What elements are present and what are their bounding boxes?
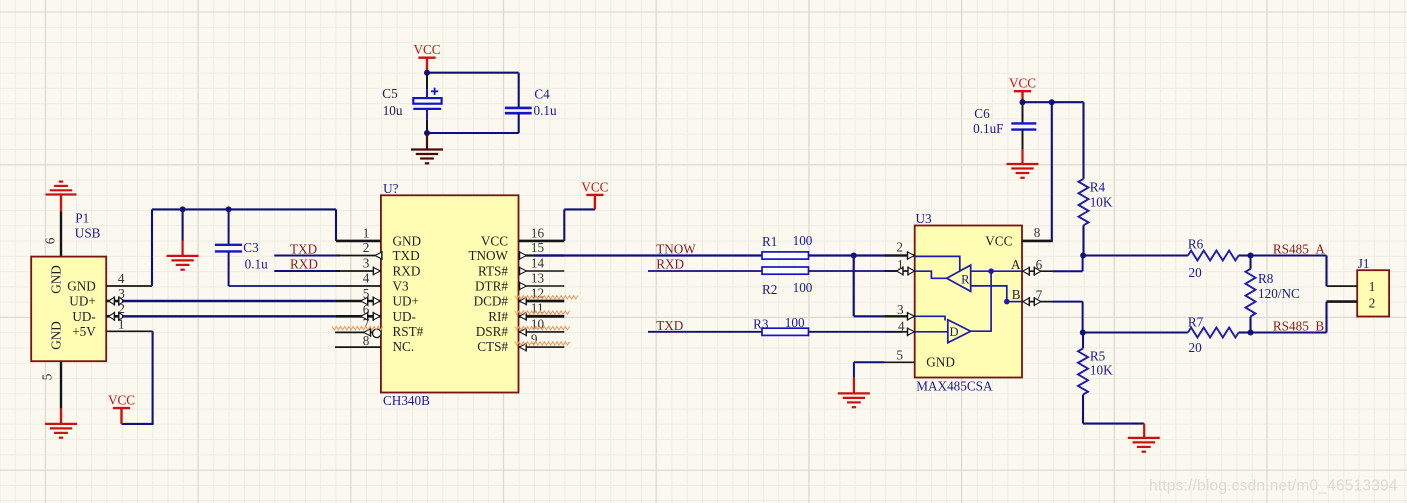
wire VCC down to U3 pin8 (1051, 102, 1053, 241)
svg-text:5: 5 (40, 373, 55, 380)
svg-text:5: 5 (363, 286, 370, 301)
U? pin name GND (393, 234, 422, 249)
ground below P1 (45, 424, 77, 438)
label P1 value USB (75, 226, 101, 241)
svg-text:R2: R2 (762, 282, 777, 297)
label CH340B (383, 393, 430, 408)
svg-text:UD-: UD- (72, 309, 95, 324)
svg-text:R4: R4 (1090, 180, 1106, 195)
U? pin 15 stub (519, 251, 565, 260)
svg-text:VCC: VCC (108, 393, 135, 408)
U3 pin 7 stub (1022, 297, 1053, 306)
U3 pin number 7 (1036, 287, 1043, 302)
svg-text:https://blog.csdn.net/m0_46513: https://blog.csdn.net/m0_46513394 (1149, 478, 1398, 495)
label R3 value 100 (785, 315, 805, 330)
P1 pin number 2 (118, 301, 125, 316)
U3 internal wire pin2 to R enable (915, 256, 960, 270)
U? pin 16 stub (519, 240, 565, 243)
U? pin 7 stub (335, 328, 381, 338)
wire R6 to junction (1239, 254, 1251, 256)
svg-text:7: 7 (1036, 287, 1043, 302)
junction dot RS485_A/R8 (1248, 253, 1254, 259)
wire GND net horizontal (152, 208, 336, 210)
svg-text:R6: R6 (1188, 237, 1204, 252)
junction dot R5/B (1080, 330, 1086, 336)
junction dot VCC/pin8 riser (1049, 99, 1055, 105)
svg-text:R: R (961, 272, 970, 286)
wire A row from U3 pin6 (1053, 256, 1083, 272)
svg-text:GND: GND (67, 279, 96, 294)
capacitor C3 (215, 209, 242, 286)
U? pin number 12 (531, 285, 544, 300)
svg-text:C3: C3 (243, 240, 259, 255)
J1 pin label 2 (1369, 296, 1376, 311)
P1 pin number 3 (118, 286, 125, 301)
label C5 value (383, 103, 403, 118)
U? pin name DSR# (476, 324, 509, 339)
U? pin number 10 (531, 316, 545, 331)
connector P1 body (31, 257, 106, 362)
U3 pin number 8 (1034, 225, 1041, 240)
ground (dark) below C5 (411, 150, 443, 164)
P1 pin name UD+ (69, 294, 96, 309)
U3 internal wire pin4 to D input (915, 331, 948, 333)
wire C4 bottom to C5 bottom (427, 132, 519, 134)
U? pin number 5 (363, 286, 370, 301)
wire R3 to U3 pin4 (809, 331, 904, 333)
svg-text:TXD: TXD (393, 248, 420, 263)
svg-text:4: 4 (118, 271, 125, 286)
svg-text:UD+: UD+ (393, 294, 420, 309)
svg-text:TXD: TXD (290, 241, 317, 256)
svg-text:0.1uF: 0.1uF (973, 121, 1003, 136)
wire R8 bottom stem (1249, 317, 1251, 333)
capacitor C5 (polarized) (413, 74, 441, 132)
resistor R6 (1188, 251, 1239, 261)
resistor R5 (1078, 348, 1088, 394)
P1 pin name +5V (72, 324, 96, 339)
svg-text:20: 20 (1189, 340, 1203, 355)
U? pin 1 stub (336, 240, 381, 243)
svg-text:GND: GND (393, 234, 422, 249)
svg-text:10K: 10K (1090, 363, 1113, 378)
svg-text:15: 15 (531, 240, 545, 255)
U3 pin number 1 (897, 257, 904, 272)
power VCC (C5 rail) (413, 42, 440, 71)
U? pin name UD- (393, 309, 416, 324)
wire VCC to pin16 (564, 209, 595, 241)
svg-text:5: 5 (896, 347, 903, 362)
svg-text:R1: R1 (762, 234, 777, 249)
svg-text:100: 100 (793, 280, 813, 295)
junction dot GND net / C3 ground (180, 206, 186, 212)
wavy no-ERC marker pin 7 (332, 327, 382, 330)
wire R2 to U3 pin1 (809, 270, 899, 272)
op-amp U3 MAX485CSA body (915, 226, 1022, 378)
svg-text:J1: J1 (1358, 256, 1370, 271)
U3 pin 2 stub (885, 251, 915, 260)
ground bottom right (1128, 438, 1160, 452)
svg-text:UD-: UD- (393, 309, 416, 324)
svg-text:1: 1 (1369, 279, 1376, 294)
svg-text:16: 16 (531, 225, 545, 240)
U? pin number 13 (531, 270, 545, 285)
wire RXD net (left) (274, 270, 340, 272)
op-amp U? CH340B body (381, 195, 519, 392)
U? pin name DTR# (475, 279, 508, 294)
U? pin number 2 (363, 240, 370, 255)
wire VCC rail right (1023, 101, 1084, 103)
svg-text:RTS#: RTS# (478, 264, 508, 279)
U3 pin number 3 (897, 302, 904, 317)
svg-text:1: 1 (118, 317, 125, 332)
wire C3 bottom to V3 (229, 285, 336, 287)
svg-text:GND: GND (926, 355, 955, 370)
P1 pin 4 stub (106, 285, 152, 287)
U? pin name RTS# (478, 264, 508, 279)
power VCC (P1) (108, 393, 135, 424)
svg-text:GND: GND (49, 321, 64, 350)
wire VCC down to R4 (1082, 102, 1084, 179)
ground below C6 (1007, 164, 1039, 178)
U? pin number 1 (363, 226, 370, 241)
U3 internal wire B line (1007, 301, 1022, 303)
pin number 5 (rotated) (40, 373, 55, 380)
svg-text:RXD: RXD (393, 264, 421, 279)
wire P1 pin1 to VCC (122, 331, 154, 424)
svg-text:2: 2 (1369, 296, 1376, 311)
wavy no-ERC marker pin 10 (515, 327, 570, 330)
svg-text:TNOW: TNOW (656, 241, 696, 256)
U3 pin 3 stub (885, 312, 915, 321)
wire A row to R6 (1083, 254, 1188, 256)
junction dot C5 bottom (424, 130, 430, 136)
svg-text:3: 3 (363, 256, 370, 271)
wire TNOW net (534, 254, 762, 256)
U3 pin number 4 (898, 319, 905, 334)
U3 pin number 5 (896, 347, 903, 362)
junction dot R4/A (1080, 253, 1086, 259)
svg-text:C5: C5 (382, 86, 398, 101)
ground near C3 (167, 256, 199, 270)
label R8 designator (1258, 271, 1274, 286)
wire UD+ net (122, 300, 336, 302)
label C3 value (245, 256, 268, 271)
resistor R8 (1246, 269, 1256, 317)
U? pin number 6 (363, 302, 370, 317)
U? pin 5 stub (336, 296, 381, 305)
U? pin 14 stub (519, 267, 565, 276)
connector J1 body (1357, 270, 1389, 316)
wire TXD net (right, to R3) (648, 331, 762, 333)
U3 pin number 6 (1036, 257, 1043, 272)
svg-text:6: 6 (1036, 257, 1043, 272)
power VCC (U? pin16) (581, 179, 608, 209)
wire B row to R7 (1083, 331, 1188, 333)
resistor R7 (1188, 328, 1239, 338)
capacitor C4 (505, 108, 532, 133)
svg-text:100: 100 (785, 315, 805, 330)
junction dot TNOW (851, 253, 857, 259)
U3 internal wire R input to B (971, 286, 1007, 302)
junction dot C3 top (226, 206, 232, 212)
svg-text:VCC: VCC (985, 234, 1012, 249)
svg-text:RS485_A: RS485_A (1273, 242, 1326, 257)
U? pin name NC. (393, 339, 415, 354)
wire P1 pin6 stub (60, 212, 62, 257)
label R7 value 20 (1189, 340, 1203, 355)
svg-text:100: 100 (793, 233, 813, 248)
wire to ground near C3 (182, 209, 184, 256)
U? pin name V3 (393, 279, 410, 294)
label R8 value 120/NC (1258, 286, 1300, 301)
svg-text:3: 3 (118, 286, 125, 301)
U? pin 13 stub (519, 282, 565, 291)
svg-text:DTR#: DTR# (475, 279, 508, 294)
P1 pin 2 bidirectional arrows (109, 312, 125, 321)
svg-text:UD+: UD+ (69, 294, 96, 309)
U? pin number 11 (531, 301, 544, 316)
U3 pin 1 stub (885, 266, 915, 275)
resistor R4 (1079, 179, 1089, 226)
wire P1 pin5 ground stem (60, 408, 62, 424)
wire R4 to A row (1082, 225, 1084, 255)
J1 pin 2 stub (1327, 300, 1358, 303)
wire TXD net (left) (274, 255, 340, 257)
U? pin number 9 (531, 332, 538, 347)
U? pin 12 stub (519, 297, 565, 306)
U? pin number 7 (363, 316, 370, 331)
svg-text:R8: R8 (1258, 271, 1274, 286)
U? pin name RI# (488, 309, 508, 324)
P1 pin number 4 (118, 271, 125, 286)
svg-text:RXD: RXD (290, 256, 318, 271)
U? pin 6 stub (336, 312, 381, 321)
U3 internal wire D output to A (971, 271, 991, 331)
label R4 designator (1090, 180, 1106, 195)
U3 pin name VCC (985, 234, 1012, 249)
label J1 designator (1358, 256, 1370, 271)
wire R7 to junction (1239, 331, 1251, 333)
U3 internal junction dot A (988, 268, 994, 274)
svg-text:10K: 10K (1090, 194, 1113, 209)
svg-text:6: 6 (43, 237, 58, 244)
wire R5 top (1082, 333, 1084, 349)
U? pin 11 stub (519, 312, 565, 321)
net label TNOW (656, 241, 696, 256)
wire R8 top stem (1249, 256, 1251, 269)
ground below U3 (838, 393, 870, 407)
wire UD- net (122, 315, 336, 317)
label R6 value 20 (1189, 265, 1203, 280)
svg-text:R7: R7 (1188, 314, 1204, 329)
wire GND net down to CH340 pin1 (335, 209, 337, 241)
label C6 designator (974, 106, 990, 121)
label R6 designator (1188, 237, 1204, 252)
svg-text:VCC: VCC (581, 179, 608, 194)
svg-text:0.1u: 0.1u (245, 256, 268, 271)
svg-text:1: 1 (363, 226, 370, 241)
pin number 6 (rotated) (43, 237, 58, 244)
U? pin 8 stub (335, 346, 381, 348)
label C4 designator (534, 86, 550, 101)
P1 rotated GND text (lower) (49, 321, 64, 350)
svg-text:TXD: TXD (656, 318, 683, 333)
P1 pin 5 stub (60, 361, 62, 408)
label U? designator (383, 181, 399, 196)
U3 pin number 2 (896, 240, 903, 255)
U? pin number 15 (531, 240, 545, 255)
resistor R3 (762, 328, 809, 335)
wavy no-ERC marker pin 11 (515, 311, 570, 314)
capacitor C6 (1011, 103, 1036, 164)
resistor R1 (762, 252, 809, 259)
P1 pin 3 stub (106, 300, 122, 303)
svg-text:C6: C6 (974, 106, 990, 121)
svg-text:2: 2 (896, 240, 903, 255)
label R1 value 100 (793, 233, 813, 248)
P1 pin 1 stub (106, 330, 152, 332)
wire RS485_A to J1 (1251, 256, 1327, 287)
label R5 value 10K (1090, 363, 1113, 378)
wire VCC rail to C4 top (427, 72, 519, 74)
U? pin name TNOW (468, 248, 508, 263)
watermark (1149, 478, 1398, 495)
svg-text:V3: V3 (393, 279, 410, 294)
svg-text:120/NC: 120/NC (1258, 286, 1300, 301)
svg-text:GND: GND (49, 265, 64, 294)
J1 pin 1 stub (1327, 285, 1358, 287)
U3 internal wire A line (971, 270, 1022, 272)
svg-text:10u: 10u (383, 103, 403, 118)
wire B row from U3 pin7 (1053, 302, 1083, 333)
net label RXD (left) (290, 256, 318, 271)
U3 pin 8 stub (1022, 240, 1053, 243)
U? pin name CTS# (477, 339, 508, 354)
U? pin number 8 (363, 333, 370, 348)
svg-text:2: 2 (363, 240, 370, 255)
P1 pin 3 bidirectional arrows (109, 296, 125, 305)
svg-text:B: B (1012, 287, 1021, 302)
junction dot C6 top (1020, 99, 1026, 105)
svg-text:1: 1 (897, 257, 904, 272)
svg-text:CH340B: CH340B (383, 393, 430, 408)
svg-text:8: 8 (363, 333, 370, 348)
label R2 value 100 (793, 280, 813, 295)
P1 pin name UD- (72, 309, 95, 324)
svg-text:RXD: RXD (656, 256, 684, 271)
wire U3 pin5 to ground (854, 362, 885, 393)
svg-text:VCC: VCC (481, 234, 508, 249)
svg-text:R3: R3 (753, 316, 769, 331)
svg-text:A: A (1011, 257, 1021, 272)
U3 internal wire pin3 to D enable (915, 316, 945, 320)
svg-text:RI#: RI# (488, 309, 508, 324)
resistor R2 (762, 267, 809, 274)
svg-text:+5V: +5V (72, 324, 96, 339)
svg-text:DSR#: DSR# (476, 324, 509, 339)
svg-text:0.1u: 0.1u (534, 103, 557, 118)
svg-text:6: 6 (363, 302, 370, 317)
U? pin number 3 (363, 256, 370, 271)
svg-text:14: 14 (531, 255, 545, 270)
label C3 designator (243, 240, 259, 255)
label C4 value (534, 103, 557, 118)
svg-text:P1: P1 (75, 211, 89, 226)
wire TNOW down to U3 pin3 (854, 256, 915, 317)
U? pin number 16 (531, 225, 545, 240)
U? pin 10 stub (519, 328, 565, 337)
U? pin 2 stub (336, 251, 382, 260)
U? pin 9 stub (519, 343, 565, 352)
label MAX485CSA (916, 379, 993, 394)
svg-text:DCD#: DCD# (474, 294, 509, 309)
U? pin name UD+ (393, 294, 420, 309)
U? pin number 14 (531, 255, 545, 270)
label R7 designator (1188, 314, 1204, 329)
svg-text:VCC: VCC (413, 42, 440, 57)
U3 receiver triangle R (947, 265, 971, 291)
wire GND net P1 pin4 up (151, 209, 153, 286)
U? pin name TXD (393, 248, 420, 263)
svg-text:USB: USB (75, 226, 101, 241)
label C5 designator (382, 86, 398, 101)
label R5 designator (1090, 348, 1106, 363)
net label RS485_A (1273, 242, 1326, 257)
U? pin number 4 (363, 271, 370, 286)
junction dot C5 top (424, 70, 430, 76)
U? pin name DCD# (474, 294, 509, 309)
U3 pin name B (1012, 287, 1021, 302)
U? pin name VCC (481, 234, 508, 249)
P1 pin 2 stub (106, 315, 122, 318)
U3 pin 6 stub (1022, 267, 1053, 276)
wire R1 to junction (809, 254, 915, 256)
svg-text:RS485_B: RS485_B (1273, 319, 1325, 334)
label P1 designator (75, 211, 89, 226)
wire R5 to ground (1083, 395, 1144, 438)
label R2 designator (762, 282, 777, 297)
U3 pin 5 stub (885, 361, 915, 363)
svg-text:C4: C4 (534, 86, 550, 101)
wavy no-ERC marker pin 9 (515, 342, 570, 345)
wire RXD net (right, to R2) (648, 270, 762, 272)
label R4 value 10K (1090, 194, 1113, 209)
svg-text:2: 2 (118, 301, 125, 316)
power VCC (C6 rail) (1009, 76, 1036, 102)
P1 pin number 1 (118, 317, 125, 332)
svg-text:U3: U3 (916, 211, 933, 226)
J1 pin label 1 (1369, 279, 1376, 294)
svg-text:TNOW: TNOW (468, 248, 508, 263)
svg-text:D: D (950, 325, 959, 339)
svg-text:4: 4 (363, 271, 370, 286)
net label RXD (right) (656, 256, 684, 271)
U? pin name RXD (393, 264, 421, 279)
U3 pin 4 stub (885, 327, 915, 336)
label R3 designator (753, 316, 769, 331)
label C6 value (973, 121, 1003, 136)
P1 rotated GND text (upper) (49, 265, 64, 294)
net label TXD (right) (656, 318, 683, 333)
U3 driver triangle D (948, 320, 971, 343)
label U3 designator (916, 211, 933, 226)
wire C5 to ground stem (426, 134, 428, 150)
wavy no-ERC marker pin 12 (515, 296, 578, 299)
U? pin 4 stub (336, 285, 381, 287)
svg-text:R5: R5 (1090, 348, 1106, 363)
net label RS485_B (1273, 319, 1325, 334)
